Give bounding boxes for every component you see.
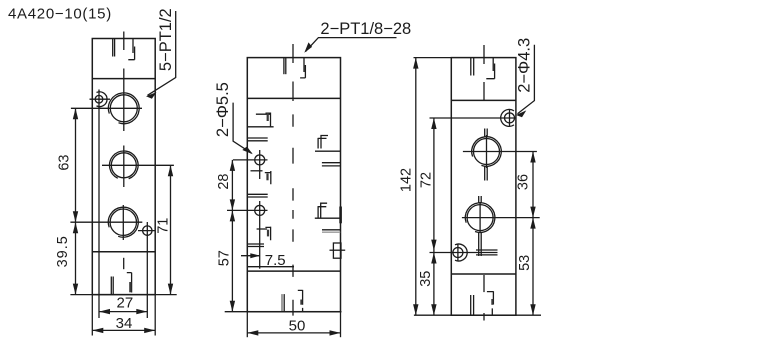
svg-text:5−PT1/2: 5−PT1/2 [157,8,175,71]
svg-text:39.5: 39.5 [55,235,71,267]
svg-text:2−PT1/8−28: 2−PT1/8−28 [320,20,411,38]
svg-text:28: 28 [216,174,232,190]
svg-text:142: 142 [399,168,415,192]
svg-text:27: 27 [117,295,134,312]
svg-text:72: 72 [419,172,435,188]
svg-text:2−Φ5.5: 2−Φ5.5 [214,82,232,137]
svg-text:34: 34 [116,315,133,332]
svg-text:35: 35 [418,271,434,287]
svg-text:71: 71 [155,218,171,234]
svg-text:53: 53 [517,255,533,271]
svg-text:57: 57 [217,250,233,266]
svg-text:50: 50 [289,317,306,334]
svg-text:63: 63 [57,155,73,171]
svg-text:4A420−10(15): 4A420−10(15) [8,6,112,23]
svg-text:36: 36 [515,174,531,190]
svg-text:2−Φ4.3: 2−Φ4.3 [515,38,533,93]
